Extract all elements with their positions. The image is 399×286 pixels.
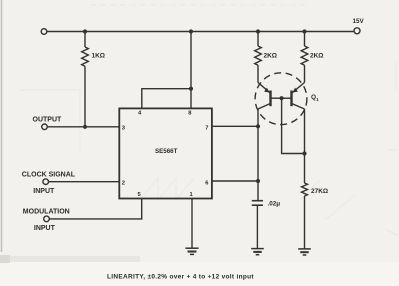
wire: pin8 to rail xyxy=(190,32,192,109)
ground: below 27K xyxy=(298,249,311,255)
terminal: 15V supply xyxy=(354,28,360,34)
svg-text:15V: 15V xyxy=(353,18,365,25)
ground: below pin1 xyxy=(185,248,198,254)
svg-text:OUTPUT: OUTPUT xyxy=(33,116,63,123)
wire: pin4 to pin8 node xyxy=(142,89,191,109)
svg-text:2KΩ: 2KΩ xyxy=(310,53,324,60)
svg-text:INPUT: INPUT xyxy=(34,225,56,232)
svg-text:INPUT: INPUT xyxy=(33,188,55,195)
arrowhead: left emitter xyxy=(264,88,269,93)
svg-text:2KΩ: 2KΩ xyxy=(264,53,278,60)
arrowhead: right emitter xyxy=(293,88,298,93)
node: pin7 junction xyxy=(256,124,260,128)
transistor Q1 right half xyxy=(290,91,292,107)
IC U1 SE566T box xyxy=(119,108,212,198)
resistor R1 1K xyxy=(84,32,86,48)
node: pin4/pin8 junction xyxy=(189,87,193,91)
node: bases center xyxy=(280,96,284,100)
wire: left collector node down to capacitor xyxy=(257,109,259,200)
svg-text:27KΩ: 27KΩ xyxy=(311,188,328,195)
node: 2K left top xyxy=(256,29,260,33)
node: base tie to right collector xyxy=(302,151,306,155)
resistor R4 27K xyxy=(302,183,308,196)
node: 1K top xyxy=(83,29,87,33)
terminal: CLOCK SIGNAL INPUT xyxy=(43,179,49,185)
svg-text:LINEARITY, ±0.2% over + 4 to +: LINEARITY, ±0.2% over + 4 to +12 volt in… xyxy=(107,274,254,281)
svg-text:MODULATION: MODULATION xyxy=(23,209,70,216)
wire: pin1 to ground xyxy=(191,199,193,249)
wire: OUTPUT terminal to pin3 xyxy=(48,126,120,128)
ground: below capacitor xyxy=(251,249,264,255)
wire: pin6 to cap node xyxy=(212,180,258,182)
svg-text:.02μ: .02μ xyxy=(268,201,281,208)
terminal: MODULATION INPUT xyxy=(44,216,50,222)
terminal: OUTPUT xyxy=(42,124,48,130)
wire: CLOCK terminal to pin2 xyxy=(49,181,120,183)
node: output/1K junction xyxy=(83,125,87,129)
capacitor C1 .02u xyxy=(252,201,263,206)
transistor Q1 left half xyxy=(269,91,271,107)
wire: bases tie-down to right collector xyxy=(282,98,305,153)
svg-text:2: 2 xyxy=(122,180,125,186)
node: pin6 junction xyxy=(256,179,260,183)
resistor R3 2K (right) xyxy=(304,32,306,47)
terminal: top-left input xyxy=(41,29,47,35)
svg-text:SE566T: SE566T xyxy=(155,148,178,155)
svg-text:1KΩ: 1KΩ xyxy=(92,53,106,60)
transistor Q1 dual PNP: dashed circle xyxy=(255,73,307,125)
wire: +15V top rail xyxy=(47,31,354,33)
node: 2K right top xyxy=(302,29,306,33)
node: pin8 rail xyxy=(189,29,193,33)
svg-text:CLOCK SIGNAL: CLOCK SIGNAL xyxy=(22,171,76,178)
wire: MODULATION terminal to pin5 xyxy=(50,199,142,219)
wire: pin7 to cap node xyxy=(212,125,258,127)
resistor R2 2K (left) xyxy=(257,32,259,47)
wire: right collector down through 27K to ground xyxy=(304,109,306,183)
svg-text:7: 7 xyxy=(205,126,208,132)
